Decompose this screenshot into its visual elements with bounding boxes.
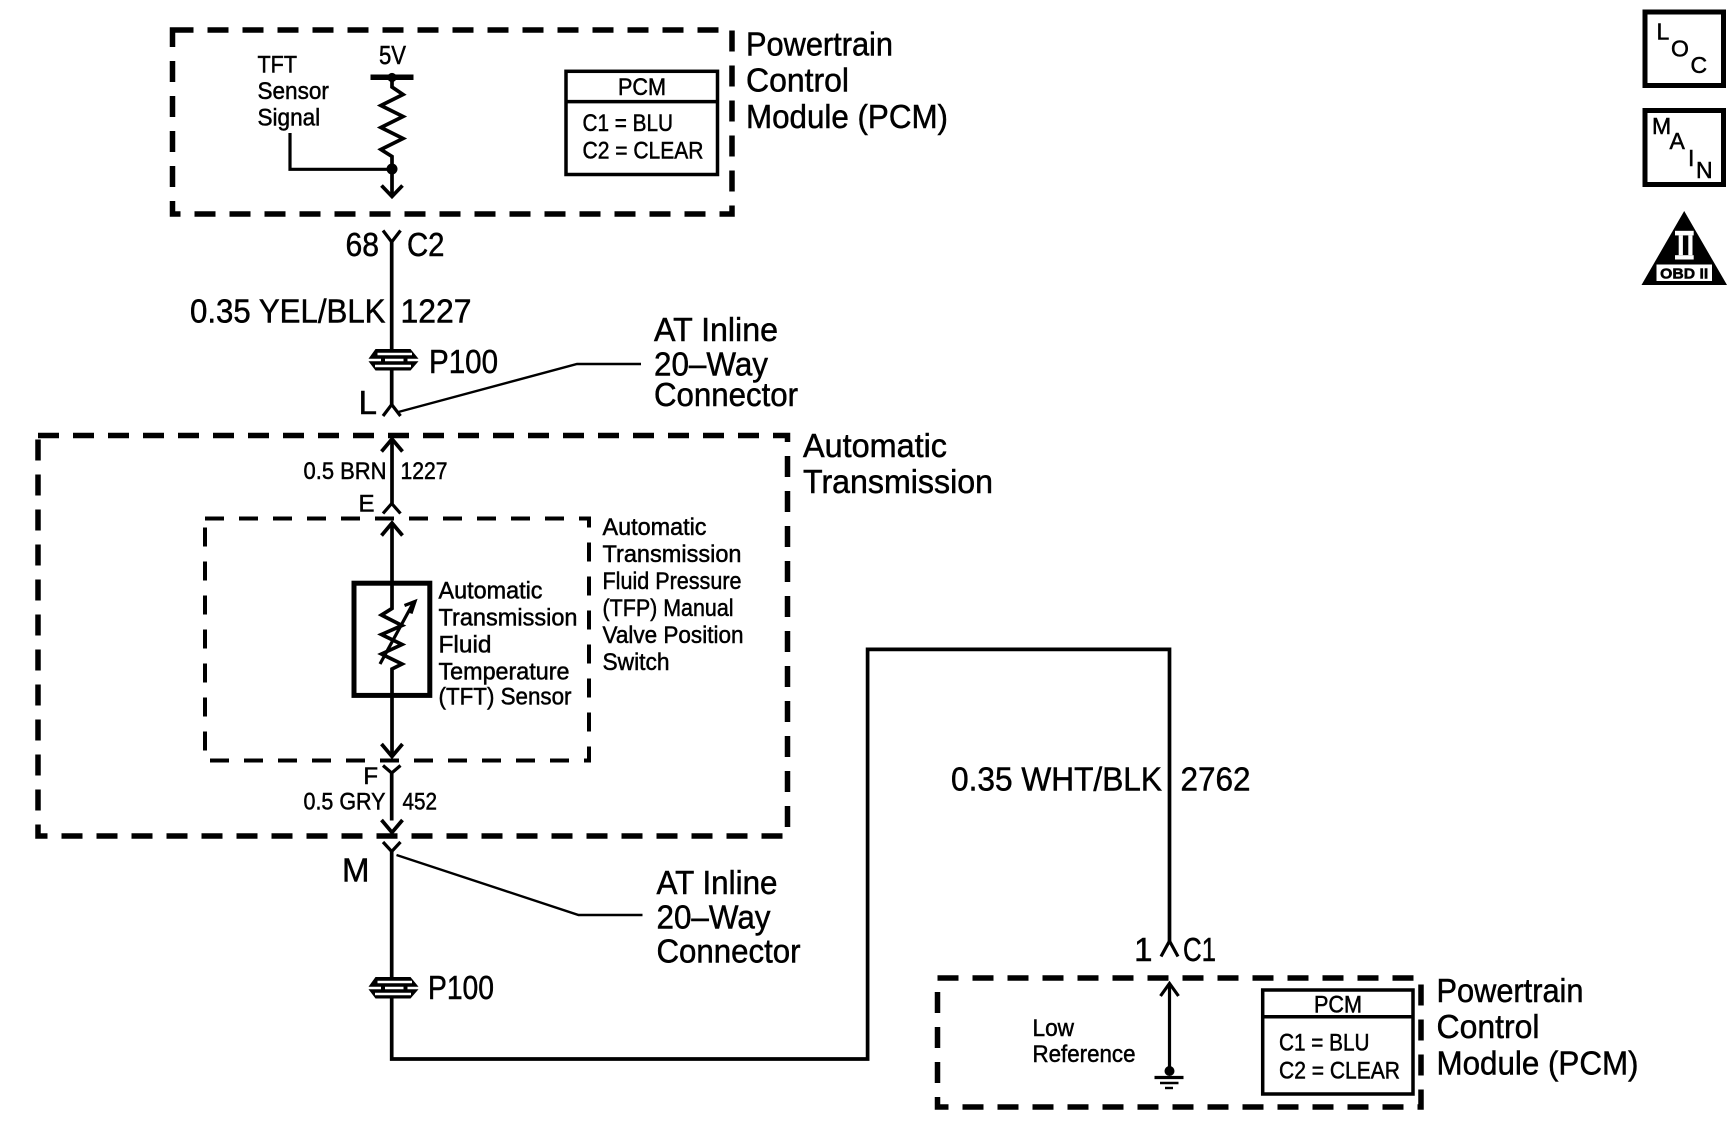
svg-text:Transmission: Transmission [439, 605, 578, 632]
TFT sensor box [354, 583, 430, 695]
svg-text:OBD II: OBD II [1660, 266, 1708, 283]
svg-text:C1: C1 [1183, 931, 1216, 968]
connector fork at pin 68 [383, 231, 401, 243]
inline connector P100 (bottom) [369, 977, 419, 999]
arrow into TFP box at E [382, 523, 403, 536]
svg-text:E: E [358, 491, 374, 518]
svg-text:Control: Control [746, 62, 849, 99]
label: Low Reference [1033, 1015, 1136, 1068]
svg-text:1227: 1227 [401, 458, 448, 485]
svg-text:C2 = CLEAR: C2 = CLEAR [1279, 1058, 1400, 1085]
thermistor arrow [380, 603, 414, 665]
junction dot (node: TFT signal) [387, 164, 398, 175]
svg-text:C: C [1691, 52, 1708, 78]
5V supply bar [371, 75, 414, 81]
svg-text:0.5 BRN: 0.5 BRN [304, 458, 387, 485]
svg-text:Control: Control [1437, 1008, 1540, 1045]
connector fork at M [383, 842, 401, 852]
PCM module box (bottom, dashed) [938, 978, 1422, 1107]
wire: E to TFT sensor [390, 523, 394, 585]
svg-text:68: 68 [346, 226, 380, 263]
svg-text:C1 = BLU: C1 = BLU [1279, 1030, 1370, 1057]
wire: C2 to P100 [390, 242, 394, 350]
svg-text:M: M [1652, 113, 1671, 139]
wire: sensor to F, arrow at F [390, 696, 394, 756]
wire: F to M [390, 773, 394, 821]
svg-text:Automatic: Automatic [439, 578, 543, 605]
svg-text:L: L [359, 384, 377, 421]
wire: P100 to L [390, 371, 394, 405]
MAIN grid icon [1645, 111, 1724, 185]
inline connector P100 (top) [369, 349, 419, 371]
PCM connector table (top) [566, 71, 718, 174]
svg-text:1227: 1227 [401, 293, 472, 330]
svg-text:Automatic: Automatic [803, 427, 947, 464]
svg-text:Fluid Pressure: Fluid Pressure [603, 568, 742, 595]
label: Automatic Transmission Fluid Pressure (TFP) Manual Valve Position Switch [603, 514, 744, 676]
svg-text:AT Inline: AT Inline [654, 311, 778, 348]
svg-text:Switch: Switch [603, 649, 670, 676]
svg-text:Module (PCM): Module (PCM) [746, 98, 948, 135]
OBD II triangle icon [1642, 211, 1728, 285]
ground symbol [1155, 1076, 1184, 1079]
PCM connector table (bottom) [1263, 990, 1413, 1094]
svg-text:Automatic: Automatic [603, 514, 707, 541]
Automatic Transmission box (dashed) [38, 436, 788, 837]
svg-text:0.5 GRY: 0.5 GRY [304, 789, 386, 816]
svg-text:Sensor: Sensor [258, 78, 329, 105]
svg-text:Module (PCM): Module (PCM) [1437, 1045, 1639, 1082]
label: AT Inline 20-Way Connector (bottom) [657, 864, 801, 970]
svg-text:Temperature: Temperature [439, 659, 570, 686]
svg-text:0.35 WHT/BLK: 0.35 WHT/BLK [951, 761, 1162, 798]
LOC grid icon [1645, 12, 1724, 86]
svg-text:I: I [1688, 145, 1694, 171]
arrow at M (exit AT box) [382, 820, 403, 833]
svg-text:AT Inline: AT Inline [657, 864, 778, 901]
arrow down to pin 68 [390, 169, 394, 195]
svg-text:452: 452 [403, 789, 438, 816]
svg-text:F: F [363, 763, 378, 790]
label: Powertrain Control Module (PCM) top [746, 26, 948, 136]
svg-text:PCM: PCM [1314, 992, 1362, 1019]
svg-text:Reference: Reference [1033, 1041, 1136, 1068]
svg-text:O: O [1671, 36, 1689, 62]
TFP manual valve position switch box (inner dashed) [205, 519, 589, 761]
svg-text:(TFT) Sensor: (TFT) Sensor [439, 684, 572, 711]
svg-text:(TFP) Manual: (TFP) Manual [603, 595, 734, 622]
svg-text:Transmission: Transmission [603, 541, 742, 568]
svg-text:L: L [1657, 19, 1670, 45]
wire: M to P100 bottom [390, 852, 394, 979]
svg-text:2762: 2762 [1181, 761, 1251, 798]
label: Powertrain Control Module (PCM) bottom [1437, 972, 1639, 1082]
label: Automatic Transmission Fluid Temperature (TFT) Sensor [439, 578, 578, 711]
PCM module box (top, dashed) [173, 30, 733, 214]
thermistor zigzag (TFT sensor element) [382, 585, 403, 696]
junction dot on 5V bar [387, 73, 396, 82]
svg-text:5V: 5V [379, 42, 406, 70]
arrow into AT box at L [382, 439, 403, 452]
svg-text:P100: P100 [428, 969, 494, 1006]
svg-text:C2: C2 [407, 226, 445, 263]
svg-text:Powertrain: Powertrain [1437, 972, 1584, 1009]
svg-text:C2 = CLEAR: C2 = CLEAR [583, 137, 704, 164]
leader line to AT Inline label (top) [397, 364, 642, 413]
label: TFT Sensor Signal [258, 52, 329, 132]
svg-text:M: M [342, 852, 370, 889]
wire: TFT signal branch [290, 133, 392, 169]
resistor R (5V pull-up) [381, 80, 403, 165]
arrow up to pin 1 (inside PCM) [1161, 984, 1179, 997]
label: AT Inline 20-Way Connector (top) [654, 311, 798, 413]
label: Automatic Transmission [803, 427, 993, 500]
svg-text:P100: P100 [429, 343, 498, 380]
wire: L to E [390, 439, 394, 504]
svg-text:TFT: TFT [258, 52, 298, 79]
svg-text:Signal: Signal [258, 104, 321, 131]
leader line to AT Inline label (bottom) [397, 855, 643, 915]
svg-text:Transmission: Transmission [803, 463, 993, 500]
svg-text:0.35 YEL/BLK: 0.35 YEL/BLK [190, 293, 386, 330]
svg-text:Low: Low [1033, 1015, 1075, 1042]
connector fork at L [383, 405, 401, 417]
connector fork at C1 [1161, 941, 1178, 957]
svg-text:20–Way: 20–Way [657, 899, 771, 936]
svg-text:Connector: Connector [657, 933, 801, 970]
svg-text:Connector: Connector [654, 376, 798, 413]
svg-text:Powertrain: Powertrain [746, 26, 893, 63]
svg-text:A: A [1670, 128, 1686, 154]
connector fork at E [383, 504, 401, 514]
ground junction dot [1165, 1066, 1175, 1076]
svg-text:1: 1 [1134, 931, 1152, 968]
svg-text:Fluid: Fluid [439, 632, 492, 659]
svg-text:PCM: PCM [618, 74, 666, 101]
low reference wire run [392, 649, 1170, 1059]
svg-text:Valve Position: Valve Position [603, 622, 744, 649]
connector fork at F [383, 766, 401, 774]
svg-text:C1 = BLU: C1 = BLU [583, 110, 674, 137]
svg-text:N: N [1696, 157, 1713, 183]
